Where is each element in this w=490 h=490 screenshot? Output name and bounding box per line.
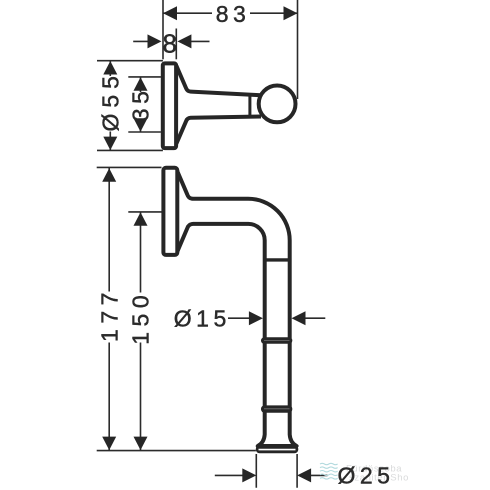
dim O25 line <box>215 474 328 476</box>
svg-text:Ø15: Ø15 <box>174 306 231 332</box>
arrow 150 top <box>134 212 148 226</box>
svg-text:177: 177 <box>96 287 122 342</box>
arrow 83 right <box>284 6 298 20</box>
arrow 8 right <box>177 34 191 48</box>
hook cone and stem fill <box>176 66 259 144</box>
arrow 177 bottom <box>102 437 116 451</box>
arrow O55 bottom <box>103 137 117 151</box>
hook ball <box>259 86 296 123</box>
pipe body <box>177 171 297 447</box>
dim O15 line <box>228 317 325 319</box>
lower wall plate <box>163 168 177 255</box>
arrow 35 top <box>134 77 148 91</box>
dim O55 line <box>109 61 111 151</box>
svg-text:Ø25: Ø25 <box>338 463 395 489</box>
dim 150 line <box>140 212 142 450</box>
arrow 83 left <box>163 6 177 20</box>
dim 83 right extension line <box>297 0 299 99</box>
arrow 8 left <box>148 34 162 48</box>
arrow O25 right <box>297 468 311 482</box>
svg-text:83: 83 <box>216 1 251 27</box>
dim 83 left extension line <box>162 0 164 59</box>
svg-text:150: 150 <box>128 290 154 345</box>
arrow 35 bottom <box>134 118 148 132</box>
arrow O15 right <box>292 311 306 325</box>
hook wall plate <box>163 63 176 148</box>
pipe joint line <box>263 258 291 261</box>
arrow 177 top <box>102 168 116 182</box>
dim 35 line <box>140 77 142 132</box>
svg-text:35: 35 <box>128 87 154 122</box>
pipe ring collar 2 <box>261 405 292 412</box>
dim 83 line <box>163 12 298 14</box>
svg-text:8: 8 <box>163 29 182 59</box>
hook cone+stem top outline <box>176 66 261 95</box>
base disc <box>256 445 298 453</box>
hook stem joint line <box>248 94 251 116</box>
dim 177 extension lines <box>97 167 256 450</box>
arrow O25 left <box>242 468 256 482</box>
pipe ring collar 1 <box>261 337 292 344</box>
hook cone+stem bottom outline <box>176 117 261 144</box>
dim 150 extension line <box>128 211 161 213</box>
dim 8 right extension line <box>175 29 177 60</box>
arrow O15 left <box>249 311 263 325</box>
dim 35 extension lines <box>128 77 161 132</box>
arrow O55 top <box>103 61 117 75</box>
dim O55 extension lines <box>97 61 163 151</box>
dim 8 tails <box>133 40 209 42</box>
dim O25 extension lines <box>256 454 297 488</box>
dim 177 line <box>108 168 110 450</box>
svg-text:Ø55: Ø55 <box>98 70 124 131</box>
watermark waves icon <box>320 463 338 479</box>
arrow 150 bottom <box>134 437 148 451</box>
